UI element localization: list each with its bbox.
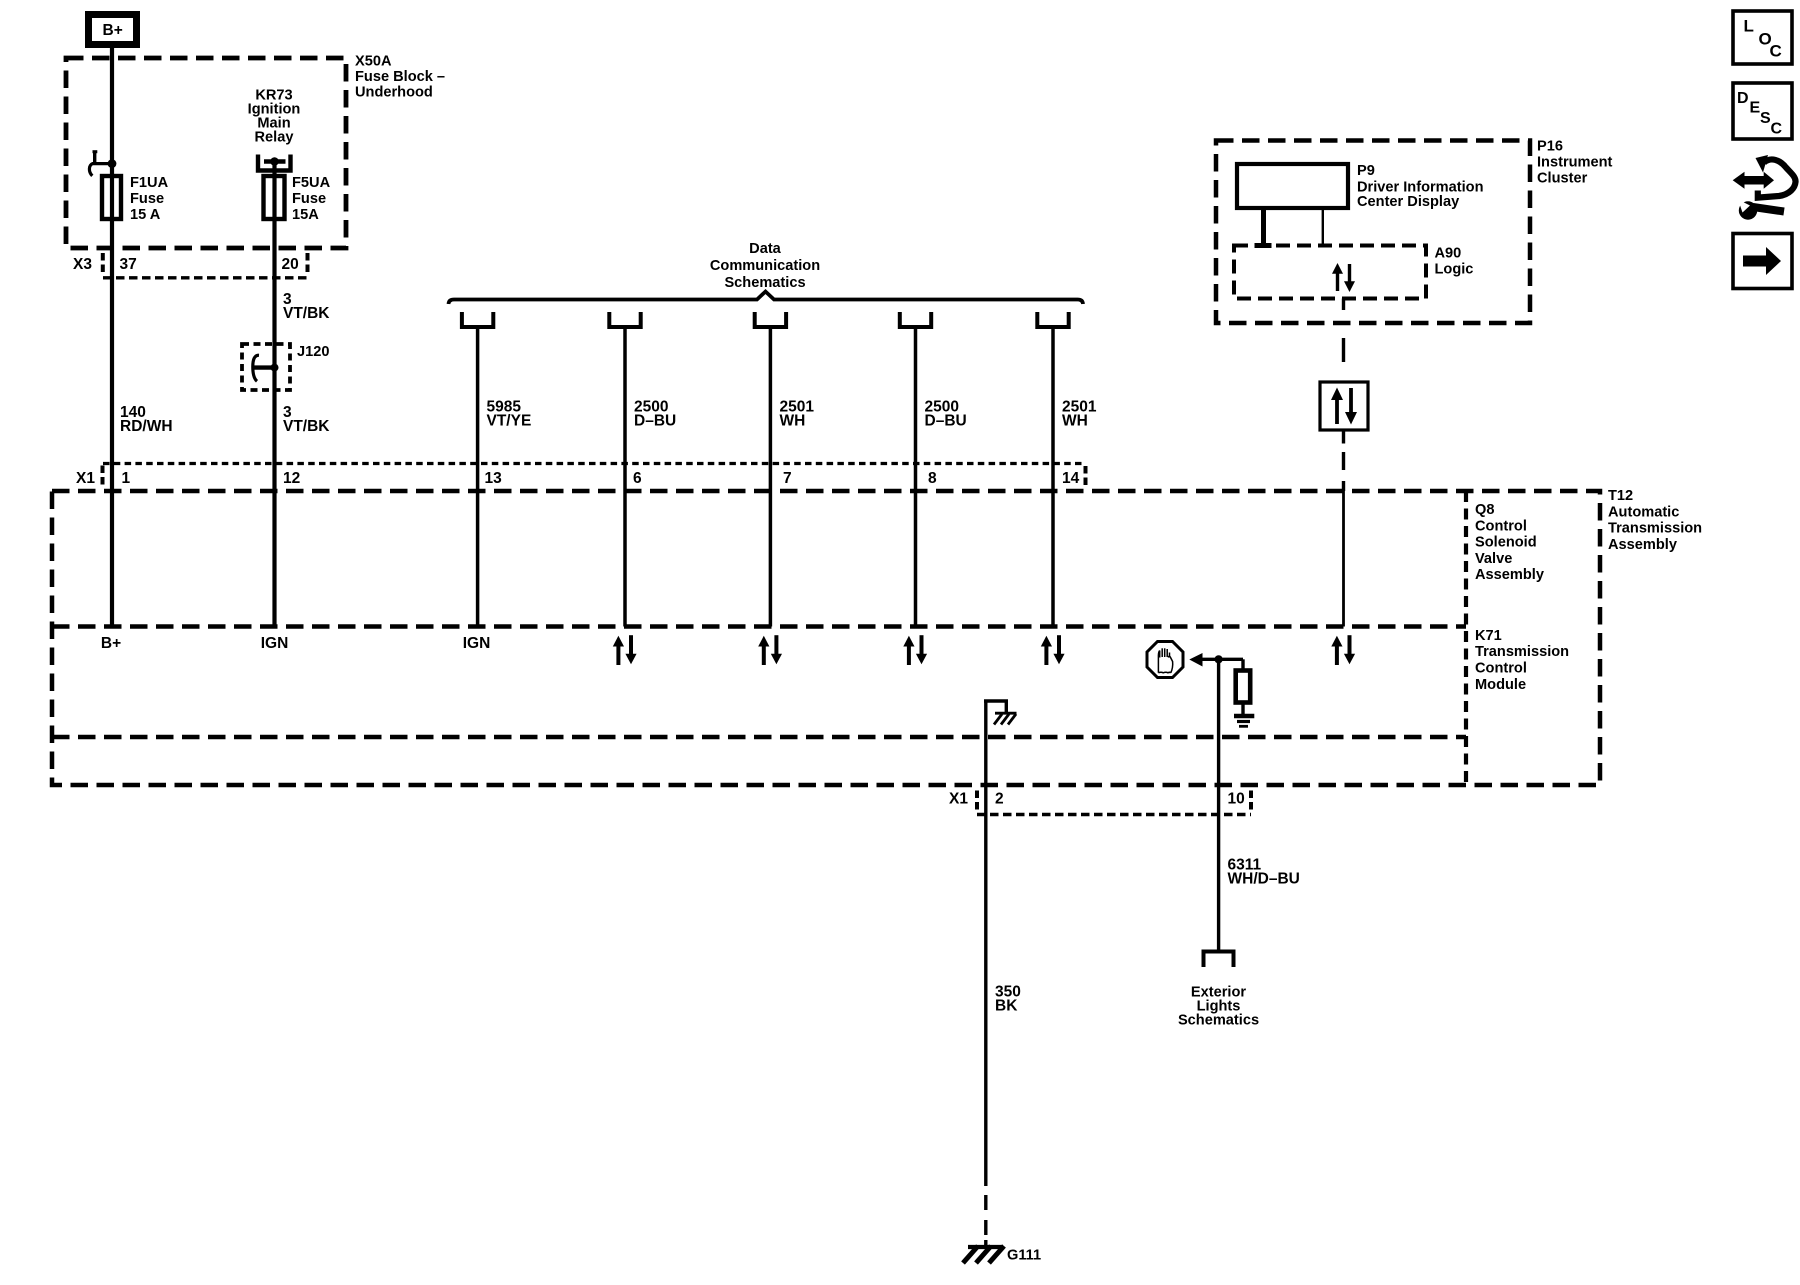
svg-text:Control: Control — [1475, 661, 1527, 677]
svg-text:15 A: 15 A — [130, 207, 161, 223]
svg-text:T12: T12 — [1608, 488, 1633, 504]
svg-text:Data: Data — [749, 241, 782, 257]
svg-text:Instrument: Instrument — [1537, 155, 1613, 171]
svg-text:Automatic: Automatic — [1608, 504, 1679, 520]
svg-text:Q8: Q8 — [1475, 502, 1494, 518]
svg-text:Assembly: Assembly — [1475, 567, 1545, 583]
svg-text:15A: 15A — [292, 207, 319, 223]
svg-text:13: 13 — [485, 470, 503, 487]
svg-text:Module: Module — [1475, 677, 1526, 693]
svg-text:Fuse: Fuse — [292, 191, 326, 207]
svg-text:Solenoid: Solenoid — [1475, 535, 1537, 551]
svg-text:J120: J120 — [297, 344, 329, 360]
svg-text:12: 12 — [283, 470, 300, 487]
svg-text:X3: X3 — [73, 256, 92, 273]
svg-text:VT/BK: VT/BK — [283, 305, 330, 322]
svg-text:F5UA: F5UA — [292, 175, 331, 191]
svg-text:P16: P16 — [1537, 139, 1563, 155]
svg-text:Assembly: Assembly — [1608, 537, 1678, 553]
svg-text:K71: K71 — [1475, 628, 1502, 644]
svg-text:Transmission: Transmission — [1608, 521, 1702, 537]
svg-text:14: 14 — [1062, 470, 1080, 487]
svg-text:B+: B+ — [101, 635, 121, 652]
svg-text:WH/D–BU: WH/D–BU — [1228, 871, 1300, 888]
svg-text:Logic: Logic — [1435, 262, 1474, 278]
svg-text:IGN: IGN — [463, 635, 491, 652]
svg-text:Fuse Block –: Fuse Block – — [355, 69, 445, 85]
svg-text:20: 20 — [282, 256, 299, 273]
svg-text:Communication: Communication — [710, 258, 820, 274]
svg-text:P9: P9 — [1357, 163, 1375, 179]
svg-text:D: D — [1737, 90, 1749, 107]
svg-text:RD/WH: RD/WH — [120, 418, 173, 435]
svg-text:WH: WH — [1062, 413, 1088, 430]
svg-text:D–BU: D–BU — [634, 413, 676, 430]
svg-text:X1: X1 — [949, 791, 968, 808]
svg-text:F1UA: F1UA — [130, 175, 169, 191]
svg-text:Transmission: Transmission — [1475, 644, 1569, 660]
svg-text:6: 6 — [633, 470, 642, 487]
svg-text:B+: B+ — [103, 22, 123, 39]
svg-text:Center Display: Center Display — [1357, 194, 1460, 210]
svg-text:E: E — [1750, 100, 1761, 117]
svg-text:Relay: Relay — [255, 130, 295, 146]
svg-text:37: 37 — [120, 256, 137, 273]
svg-text:Underhood: Underhood — [355, 85, 433, 101]
svg-text:X1: X1 — [76, 470, 95, 487]
svg-text:Control: Control — [1475, 518, 1527, 534]
svg-text:Schematics: Schematics — [724, 275, 805, 291]
svg-text:IGN: IGN — [261, 635, 289, 652]
svg-text:WH: WH — [780, 413, 806, 430]
svg-text:D–BU: D–BU — [925, 413, 967, 430]
svg-text:Schematics: Schematics — [1178, 1013, 1259, 1029]
svg-text:1: 1 — [122, 470, 131, 487]
svg-text:10: 10 — [1228, 791, 1245, 808]
svg-text:S: S — [1760, 110, 1771, 127]
svg-text:8: 8 — [928, 470, 937, 487]
svg-text:VT/YE: VT/YE — [487, 413, 532, 430]
svg-text:C: C — [1771, 121, 1783, 138]
svg-text:L: L — [1744, 17, 1754, 36]
svg-text:7: 7 — [783, 470, 792, 487]
svg-text:Valve: Valve — [1475, 551, 1512, 567]
svg-text:BK: BK — [995, 998, 1018, 1015]
svg-text:VT/BK: VT/BK — [283, 418, 330, 435]
svg-text:2: 2 — [995, 791, 1004, 808]
svg-text:Fuse: Fuse — [130, 191, 164, 207]
svg-text:X50A: X50A — [355, 54, 392, 70]
svg-text:C: C — [1770, 42, 1782, 61]
svg-text:G111: G111 — [1007, 1248, 1041, 1264]
svg-text:A90: A90 — [1435, 246, 1462, 262]
svg-text:Cluster: Cluster — [1537, 171, 1588, 187]
